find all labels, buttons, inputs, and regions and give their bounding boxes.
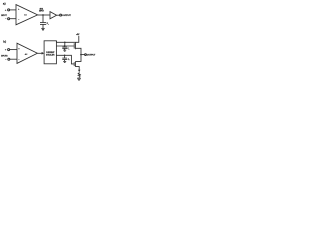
svg-text:C2: C2 [68,59,70,61]
svg-text:STEALER: STEALER [46,54,55,57]
svg-text:C1: C1 [67,48,69,50]
svg-text:OUTPUT: OUTPUT [87,54,96,56]
svg-text:OUTPUT: OUTPUT [62,15,71,17]
svg-text:INPUT: INPUT [1,15,7,17]
svg-text:b): b) [3,39,6,43]
svg-text:a): a) [3,1,6,5]
svg-text:CS: CS [47,23,49,25]
